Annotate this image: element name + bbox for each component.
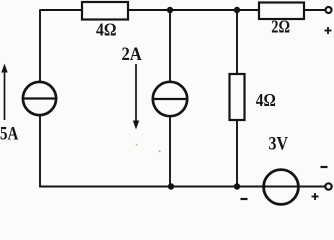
arrow 2A direction down	[133, 64, 139, 130]
plus sign right of voltage source	[312, 193, 319, 200]
junction node top middle	[167, 7, 173, 13]
resistor R1 4ohm top	[82, 2, 128, 20]
terminal top right open circle	[326, 7, 332, 13]
wire left branch upper	[39, 10, 41, 82]
wire left branch lower	[39, 115, 41, 187]
minus sign above bottom terminal	[321, 166, 328, 168]
wire top rail left segment	[39, 9, 82, 11]
voltage source V1 3V circle	[264, 170, 299, 205]
junction node top right	[234, 7, 240, 13]
junction node bottom right	[234, 183, 240, 189]
wire middle branch lower	[169, 116, 171, 187]
resistor R2 2ohm	[259, 3, 304, 20]
wire to top terminal	[304, 9, 325, 11]
junction node bottom middle	[168, 183, 174, 189]
current source I2 2A circle	[153, 82, 187, 116]
wire bottom rail	[39, 186, 325, 188]
terminal bottom right open circle	[325, 183, 331, 189]
svg-text:2A: 2A	[122, 44, 143, 65]
wire right branch upper	[236, 10, 238, 74]
wire bottom left corner vertical	[39, 186, 41, 189]
arrow 5A direction up	[1, 64, 7, 121]
resistor R3 4ohm vertical	[230, 74, 245, 120]
wire right branch lower	[236, 120, 238, 187]
plus sign top right	[325, 27, 332, 34]
svg-text:4Ω: 4Ω	[256, 90, 276, 110]
wire middle branch upper	[169, 10, 171, 82]
wire top rail middle segment	[128, 9, 259, 11]
minus sign at bottom junction	[241, 198, 248, 200]
svg-text:5A: 5A	[0, 123, 19, 144]
current source I1 5A circle	[23, 82, 56, 115]
svg-text:2Ω: 2Ω	[271, 17, 290, 37]
current source I2 diameter line	[153, 98, 188, 100]
svg-text:4Ω: 4Ω	[96, 20, 117, 40]
svg-text:3V: 3V	[269, 133, 289, 154]
current source I1 diameter line	[23, 97, 57, 99]
